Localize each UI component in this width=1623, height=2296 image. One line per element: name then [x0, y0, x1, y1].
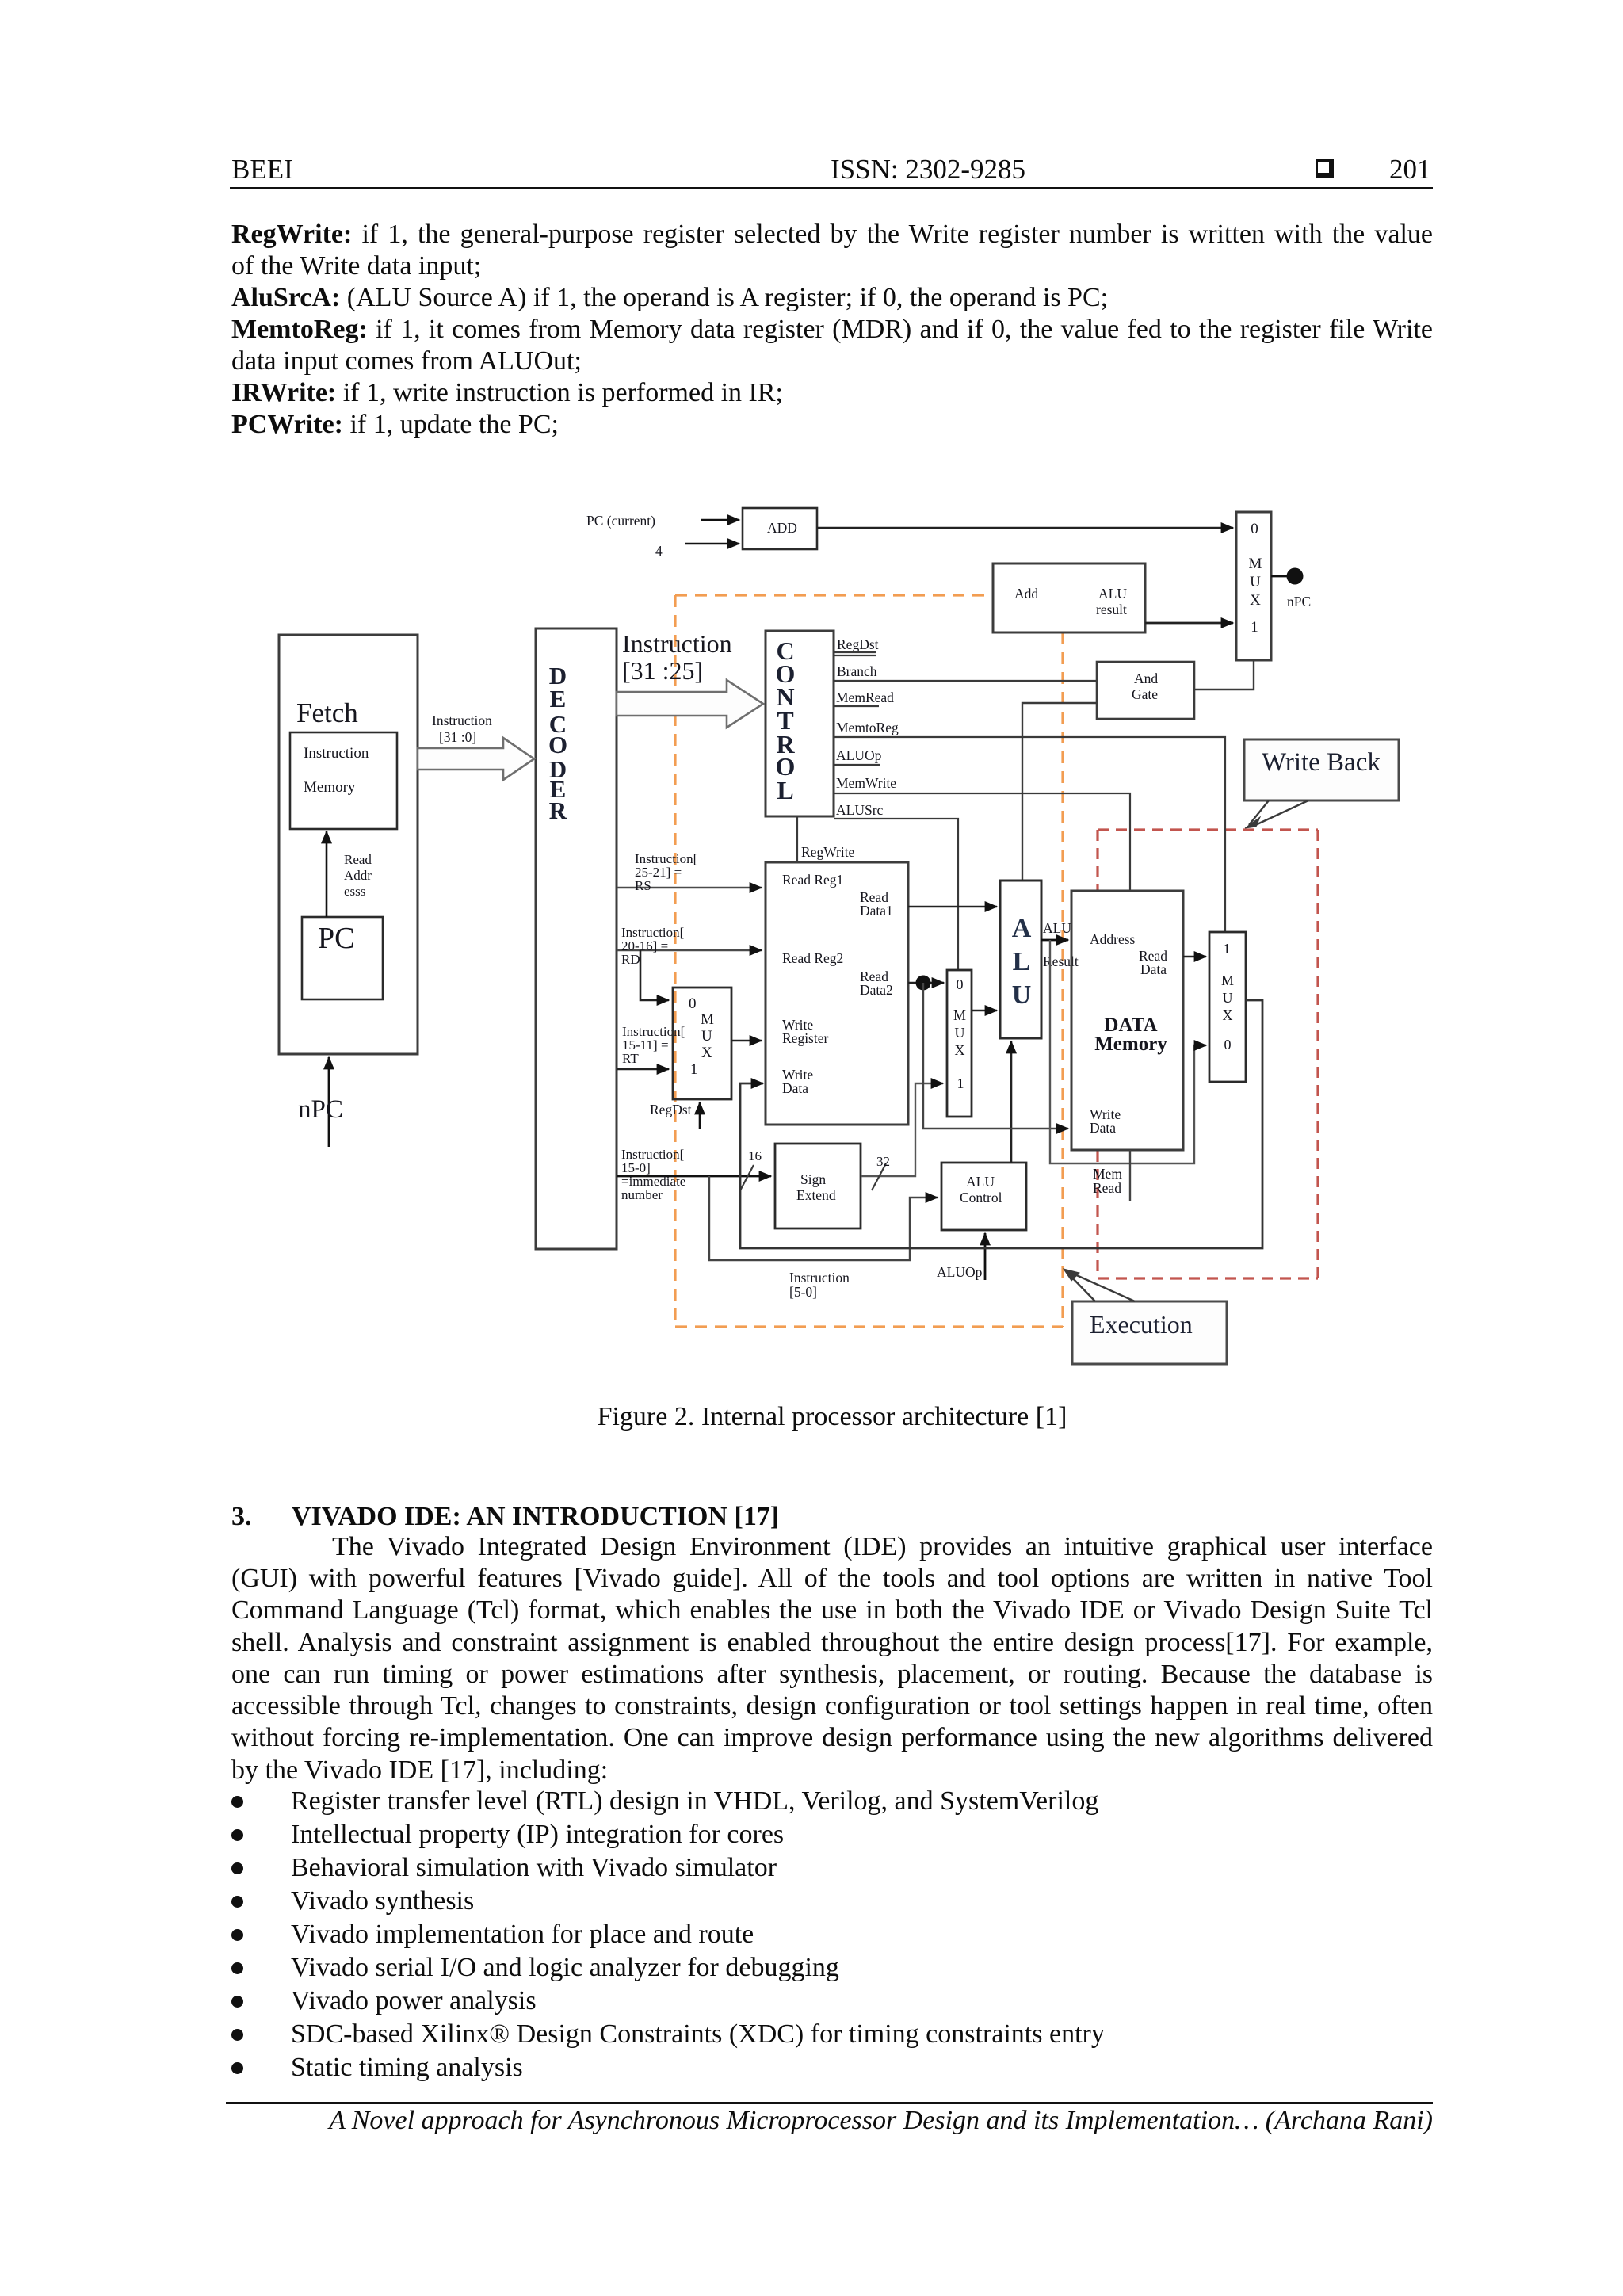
wire instruction 5-0 to alu control: [709, 1176, 938, 1260]
svg-text:Address: Address: [1090, 931, 1136, 947]
wire read data1 to alu: [908, 906, 997, 908]
MemRead stub wire: [834, 705, 879, 707]
write back wire memtoreg mux to registers write data: [740, 1000, 1262, 1248]
svg-text:U: U: [1250, 574, 1261, 590]
svg-text:Data1: Data1: [860, 903, 893, 919]
svg-text:ALUSrc: ALUSrc: [836, 802, 884, 818]
svg-text:result: result: [1096, 602, 1127, 617]
svg-text:O: O: [548, 731, 567, 758]
block arrow decoder to control: [617, 680, 763, 728]
svg-text:Extend: Extend: [796, 1187, 836, 1203]
svg-text:ALUOp: ALUOp: [836, 747, 882, 763]
execution callout: [1072, 1301, 1227, 1364]
svg-text:U: U: [1223, 990, 1233, 1006]
svg-text:32: 32: [876, 1154, 890, 1169]
svg-text:U: U: [955, 1025, 965, 1041]
svg-text:nPC: nPC: [1287, 594, 1311, 609]
svg-text:0: 0: [1224, 1037, 1232, 1052]
PC box: [302, 917, 383, 999]
data memory title: [1094, 1014, 1167, 1055]
svg-text:Addr: Addr: [344, 868, 372, 883]
memtoreg mux box: [1209, 932, 1246, 1082]
svg-text:M: M: [953, 1007, 966, 1023]
decoder letters: [548, 662, 567, 824]
svg-text:Fetch: Fetch: [296, 697, 358, 728]
wire 20-16 branch to regdst mux input 0: [640, 950, 669, 1000]
svg-text:0: 0: [1251, 521, 1258, 537]
svg-text:X: X: [955, 1042, 965, 1058]
svg-text:M: M: [1249, 556, 1262, 572]
decoder box: [536, 628, 617, 1249]
instruction memory box: [290, 732, 397, 829]
sign extend box: [775, 1144, 861, 1228]
svg-text:Execution: Execution: [1090, 1310, 1193, 1339]
svg-text:R: R: [549, 797, 567, 824]
alusrc mux labels: [953, 976, 966, 1091]
RegDst stub wire: [834, 651, 876, 653]
control letters: [776, 636, 796, 804]
MemWrite wire: [834, 793, 1130, 891]
RegDst select arrow: [699, 1102, 701, 1129]
svg-text:Instruction: Instruction: [622, 629, 732, 658]
nPC mux box: [1236, 512, 1271, 660]
svg-text:M: M: [1221, 972, 1234, 988]
registers port labels: [782, 872, 893, 1096]
svg-text:number: number: [621, 1187, 663, 1202]
svg-text:esss: esss: [344, 884, 365, 899]
svg-text:RegWrite: RegWrite: [801, 844, 855, 860]
wire read data2 to alusrc mux input 0: [908, 982, 944, 984]
svg-text:Gate: Gate: [1132, 686, 1158, 702]
svg-text:PC (current): PC (current): [586, 513, 655, 529]
read data2 junction dot: [916, 976, 931, 991]
svg-text:Read Reg2: Read Reg2: [782, 950, 843, 966]
svg-text:Memory: Memory: [1094, 1033, 1167, 1055]
svg-text:1: 1: [957, 1075, 964, 1091]
svg-text:RT: RT: [622, 1051, 639, 1066]
svg-text:1: 1: [1224, 941, 1231, 957]
svg-text:Read: Read: [344, 852, 372, 867]
wire alu control to alu: [1010, 1041, 1013, 1163]
MemtoReg wire: [834, 737, 1225, 932]
svg-text:M: M: [701, 1011, 714, 1028]
svg-text:RegDst: RegDst: [837, 636, 879, 652]
svg-text:RD: RD: [621, 952, 640, 967]
ALUSrc wire: [834, 819, 958, 970]
svg-text:[5-0]: [5-0]: [789, 1284, 817, 1300]
Branch wire to and gate: [834, 680, 1097, 682]
svg-text:RS: RS: [635, 878, 651, 893]
svg-text:RegDst: RegDst: [650, 1102, 692, 1117]
svg-text:MemRead: MemRead: [836, 690, 894, 705]
mem read stub wire: [1129, 1150, 1131, 1201]
svg-text:Memory: Memory: [304, 779, 356, 796]
svg-text:ALU: ALU: [1043, 920, 1071, 936]
svg-text:nPC: nPC: [298, 1095, 343, 1124]
svg-text:Write Back: Write Back: [1262, 748, 1381, 777]
svg-text:1: 1: [1251, 619, 1258, 636]
nPC mux labels: [1249, 521, 1262, 636]
red dashed write-back boundary: [1098, 830, 1318, 1278]
svg-text:ALU: ALU: [1098, 586, 1127, 602]
svg-text:DATA: DATA: [1104, 1014, 1157, 1036]
ADD box: [743, 508, 817, 549]
bus width 32 tick: [872, 1163, 886, 1190]
svg-text:X: X: [1250, 592, 1261, 609]
control box: [766, 631, 834, 816]
wire into ADD bottom: [685, 543, 739, 545]
svg-text:1: 1: [690, 1061, 698, 1078]
RegWrite wire: [796, 816, 798, 862]
svg-text:Read: Read: [1093, 1180, 1121, 1196]
svg-text:MemtoReg: MemtoReg: [836, 720, 899, 735]
alu letters: [1012, 914, 1032, 1010]
svg-text:Register: Register: [782, 1030, 828, 1046]
alu control box: [941, 1163, 1026, 1230]
svg-text:0: 0: [689, 995, 697, 1012]
wire instruction 20-16 to read reg2: [617, 949, 762, 952]
wire ALU zero to and gate: [1022, 703, 1097, 881]
memtoreg mux labels: [1221, 941, 1234, 1052]
regdst mux labels: [689, 995, 714, 1078]
svg-text:ALUOp: ALUOp: [937, 1264, 983, 1280]
wire instruction 15-0 to sign extend: [617, 1175, 771, 1178]
wire alu result bypass to memtoreg mux input 0: [1050, 940, 1206, 1163]
wire and gate to nPC mux select: [1194, 660, 1254, 690]
svg-text:Control: Control: [960, 1190, 1002, 1205]
svg-text:0: 0: [957, 976, 964, 992]
svg-text:Add: Add: [1014, 586, 1038, 602]
svg-text:L: L: [1013, 947, 1031, 976]
svg-text:ALU: ALU: [966, 1174, 995, 1190]
svg-text:Instruction: Instruction: [432, 712, 492, 728]
wire ADD to nPC mux input 0: [817, 527, 1233, 529]
svg-text:L: L: [777, 776, 793, 804]
data memory port labels: [1090, 931, 1167, 1136]
svg-text:Data: Data: [782, 1080, 808, 1096]
wire into ADD top: [701, 519, 739, 521]
wire PC to instruction memory: [326, 831, 328, 917]
svg-text:Mem: Mem: [1093, 1166, 1122, 1182]
wire branch adder to nPC mux input 1: [1145, 622, 1233, 625]
header square icon: [1316, 159, 1334, 178]
write back callout tail: [1249, 800, 1308, 827]
wire regdst mux to write register: [731, 1040, 762, 1042]
svg-text:U: U: [1012, 980, 1032, 1010]
svg-text:PC: PC: [318, 922, 354, 955]
wire read data to memtoreg mux input 1: [1183, 956, 1206, 958]
svg-text:Data: Data: [1090, 1120, 1116, 1136]
wire read data2 to data memory write data: [923, 983, 1068, 1129]
ALUOp stub wire: [834, 764, 880, 766]
alu box: [1000, 881, 1041, 1038]
nPC node dot: [1287, 568, 1304, 585]
svg-text:U: U: [701, 1028, 712, 1045]
wire alusrc mux to alu: [972, 1010, 997, 1012]
svg-text:Result: Result: [1043, 953, 1079, 969]
svg-text:MemWrite: MemWrite: [836, 775, 896, 791]
figure caption: [231, 1402, 1433, 1432]
svg-text:A: A: [1012, 914, 1032, 943]
svg-text:Instruction: Instruction: [304, 745, 369, 762]
svg-text:Sign: Sign: [800, 1171, 826, 1187]
svg-text:ADD: ADD: [767, 520, 797, 536]
svg-text:And: And: [1134, 670, 1158, 686]
svg-text:16: 16: [748, 1148, 762, 1163]
svg-text:4: 4: [655, 543, 663, 559]
svg-text:E: E: [550, 685, 567, 712]
wire sign extend to alusrc mux input 1: [861, 1083, 943, 1176]
wire instruction 15-11 to regdst mux input 1: [617, 1068, 669, 1071]
wire alu result to data memory address: [1041, 939, 1068, 942]
nPC input arrow: [328, 1057, 330, 1147]
svg-text:Data2: Data2: [860, 982, 893, 998]
svg-text:X: X: [1223, 1007, 1233, 1023]
block arrow fetch to decoder: [418, 738, 534, 780]
svg-text:[31 :0]: [31 :0]: [439, 729, 476, 745]
orange dashed execution boundary: [675, 595, 1063, 1327]
bus width 16 tick: [739, 1165, 754, 1192]
regdst mux box: [673, 988, 731, 1099]
svg-text:Branch: Branch: [837, 663, 877, 679]
ALUOp arrow into alu control: [984, 1233, 987, 1280]
svg-text:Data: Data: [1140, 961, 1167, 977]
svg-text:Instruction: Instruction: [789, 1270, 850, 1286]
execution callout tail: [1070, 1274, 1135, 1301]
fetch outer box: [279, 635, 418, 1054]
branch adder box: [993, 563, 1145, 632]
svg-text:Read Reg1: Read Reg1: [782, 872, 843, 888]
wire mux to nPC node: [1271, 575, 1289, 578]
and gate box: [1097, 662, 1194, 719]
registers box: [766, 862, 908, 1125]
wire instruction 25-21 to read reg1: [617, 887, 762, 889]
write back callout: [1244, 739, 1399, 800]
data memory box: [1071, 891, 1183, 1150]
alusrc mux box: [947, 970, 972, 1117]
control outputs: [801, 636, 899, 860]
svg-text:X: X: [701, 1045, 712, 1061]
svg-text:[31 :25]: [31 :25]: [622, 656, 703, 685]
